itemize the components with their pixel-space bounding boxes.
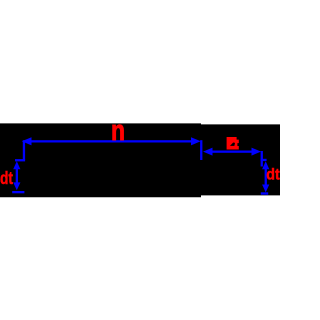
right dt dimension arrow (vertical double arrow) <box>262 161 269 192</box>
right jog line <box>261 159 267 161</box>
left bottom reference line <box>12 191 24 193</box>
left extension tick under n arrow <box>23 140 25 160</box>
right extension tick under o arrow <box>261 151 263 167</box>
dimension line o (horizontal double arrow) <box>203 148 261 156</box>
left jog line <box>15 159 25 161</box>
svg-text:dt: dt <box>266 167 280 184</box>
right bottom reference line <box>261 192 268 194</box>
right extension tick under n arrow <box>200 140 202 160</box>
dimension line n (horizontal double arrow) <box>22 137 201 145</box>
signal band (black pulse body, lower step after x=201) <box>0 123 280 197</box>
svg-text:dt: dt <box>0 168 13 188</box>
left dt dimension arrow (vertical double arrow) <box>13 161 20 190</box>
label o (blocky glyph above right arrow) <box>227 137 239 150</box>
svg-text:n: n <box>111 115 125 147</box>
